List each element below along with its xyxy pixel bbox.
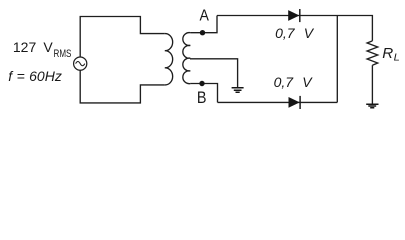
label 127 V RMS (13, 40, 53, 54)
wire node B branch (190, 84, 217, 103)
wire resistor bottom lead (371, 65, 373, 104)
wire junction vertical (cathodes common node) (336, 16, 338, 103)
wire bottom-left (transformer primary bottom to source) (80, 70, 165, 103)
svg-text:B: B (197, 88, 207, 107)
AC source V1 circle (74, 57, 87, 70)
diode D2 triangle (289, 97, 300, 108)
svg-text:A: A (200, 8, 210, 25)
label f = 60Hz (8, 69, 62, 83)
wire bottom rail (to diode D2) (218, 101, 338, 103)
label 0,7 V (diode D2 drop) (274, 75, 312, 89)
diode D1 triangle (288, 10, 299, 21)
wire top-left (source to transformer primary top) (80, 17, 165, 58)
label 0,7 V (diode D1 drop) (275, 26, 313, 40)
ground G1 (center tap) bars (232, 88, 244, 92)
svg-text:RMS: RMS (54, 48, 72, 60)
AC source sine symbol (76, 62, 85, 66)
wire node A branch (190, 16, 217, 33)
node B dot (199, 81, 204, 86)
wire top rail (to diode D1 and load) (217, 16, 372, 41)
label RL (382, 46, 393, 61)
transformer T1 primary winding (165, 34, 173, 85)
resistor RL zigzag (367, 41, 378, 65)
wire center tap to ground (190, 59, 238, 88)
svg-text:L: L (394, 53, 400, 64)
diode D2 cathode bar (299, 96, 301, 109)
diode D1 cathode bar (299, 9, 301, 22)
node A dot (200, 30, 205, 35)
ground G2 (below RL) bars (366, 104, 378, 107)
transformer T1 secondary winding (183, 33, 190, 84)
